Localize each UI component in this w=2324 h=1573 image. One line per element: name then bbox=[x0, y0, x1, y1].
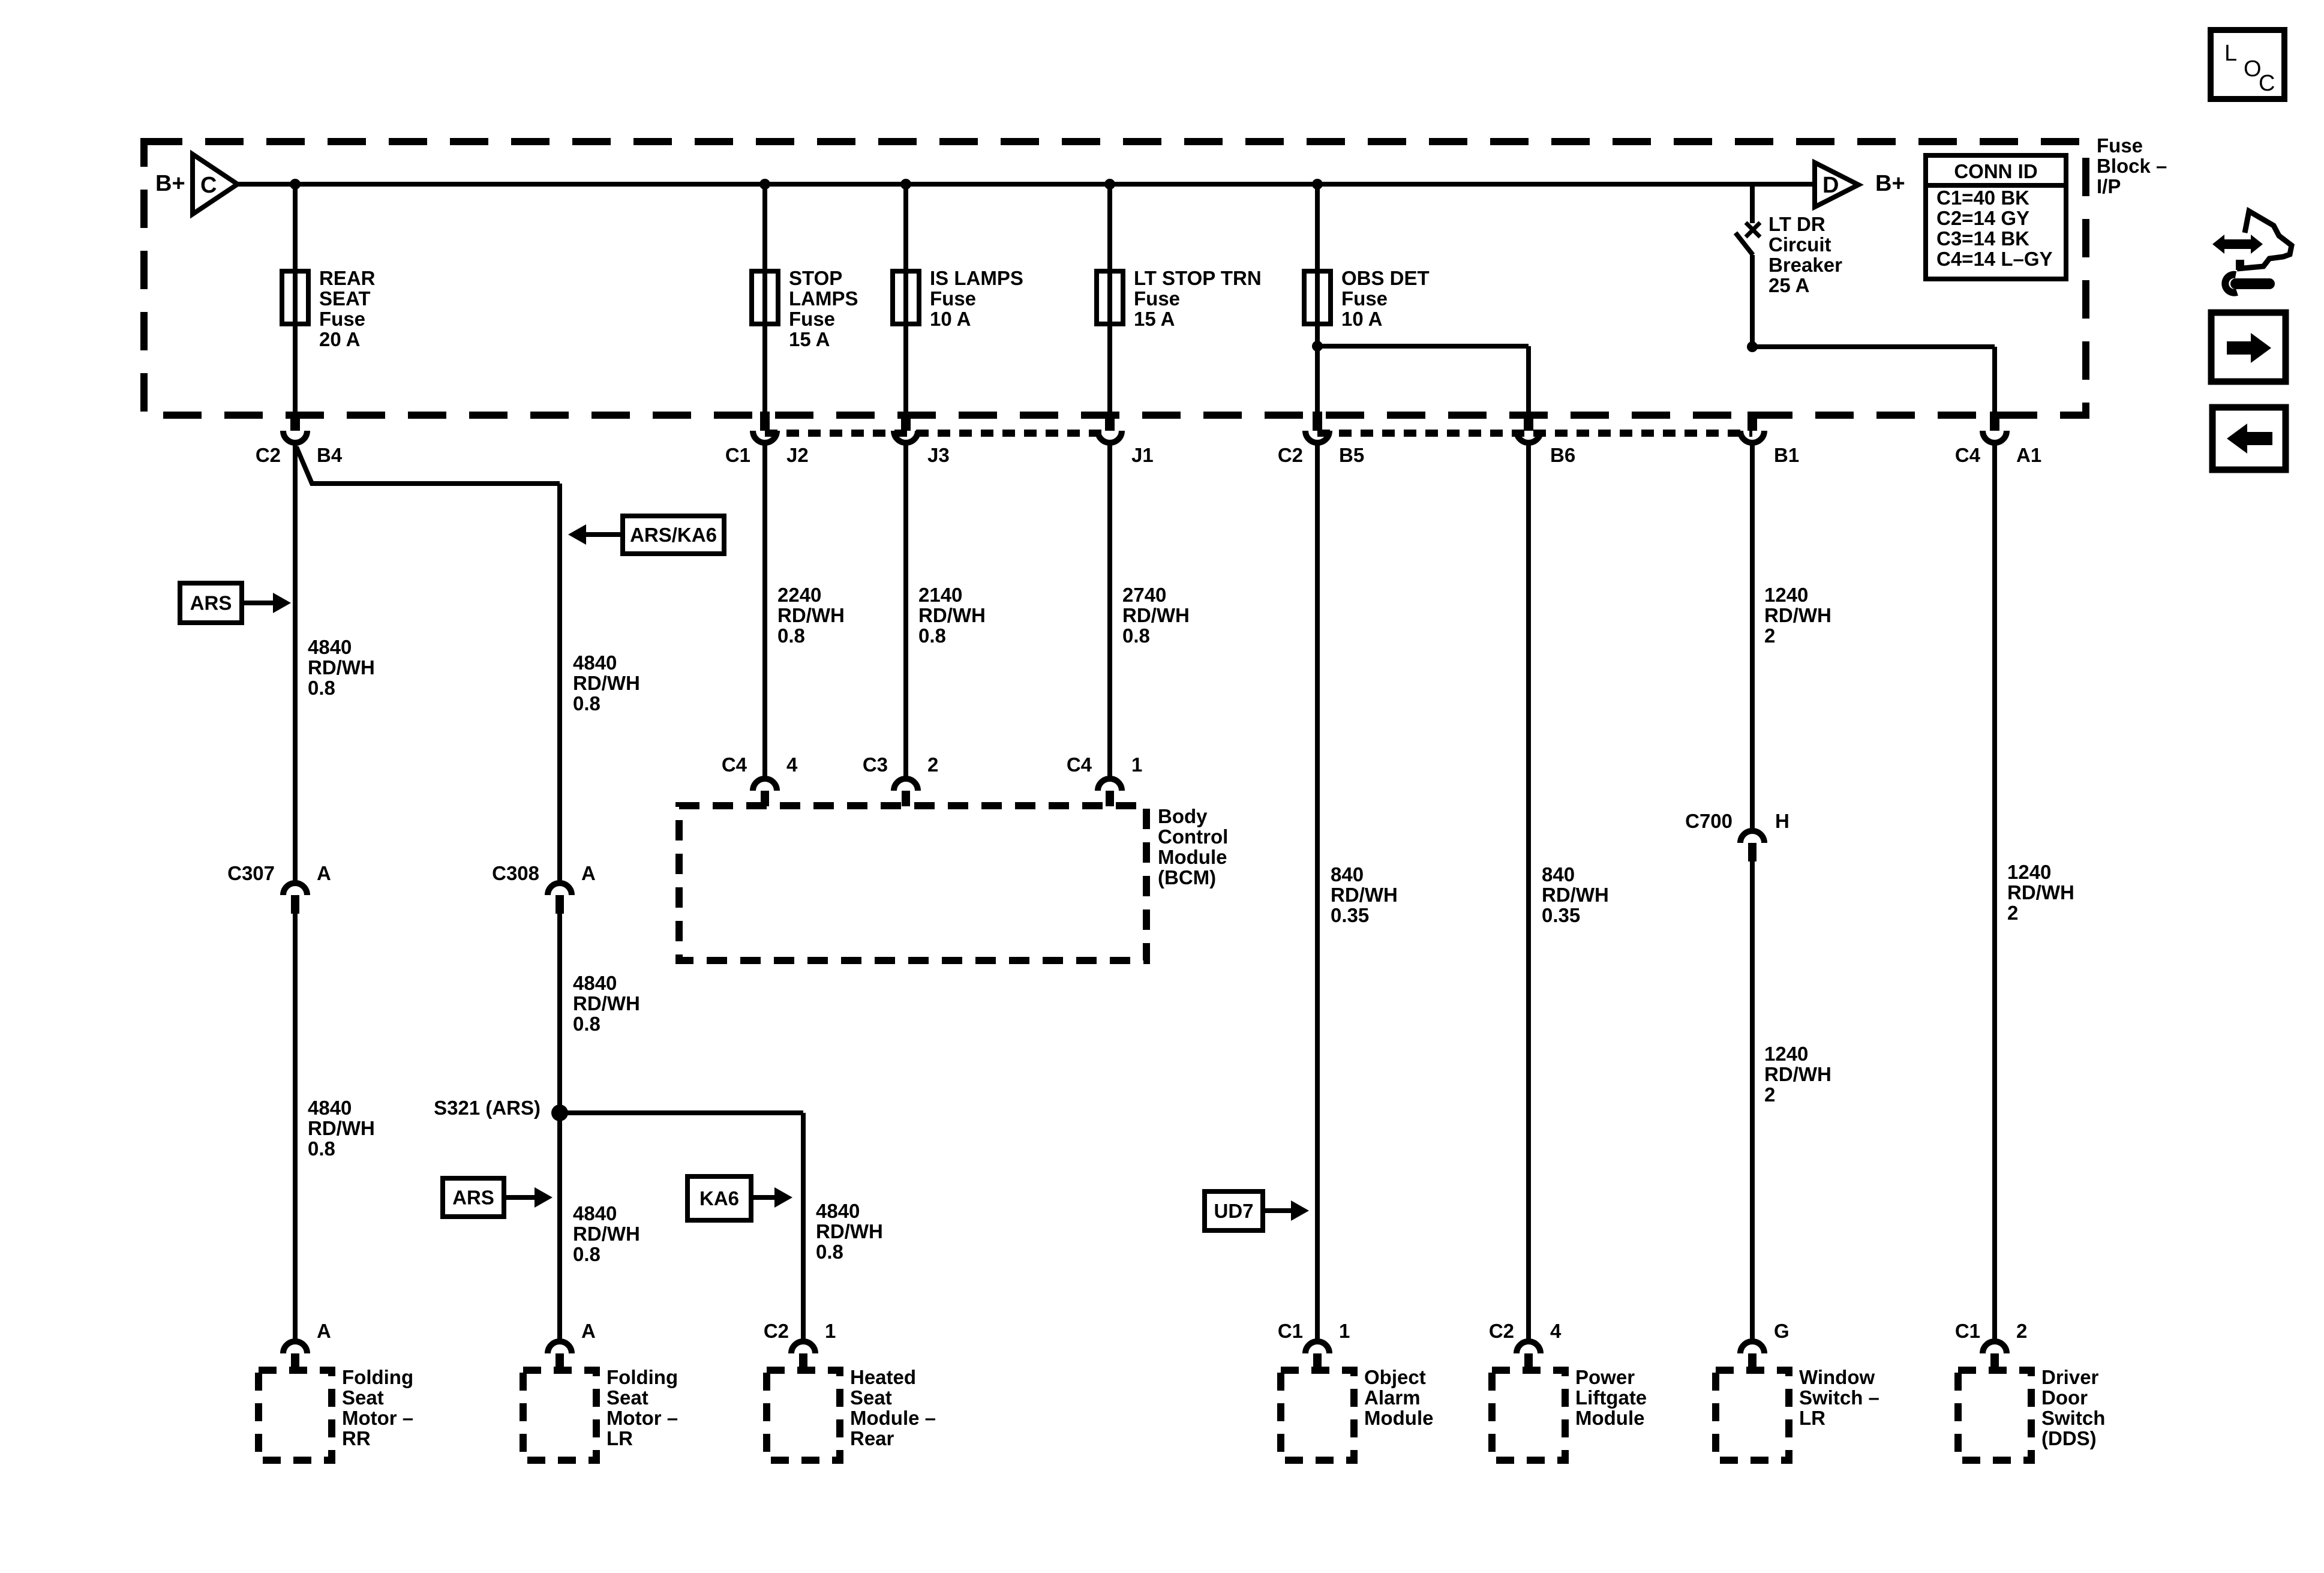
svg-text:C2: C2 bbox=[1489, 1320, 1514, 1342]
svg-text:H: H bbox=[1775, 810, 1789, 832]
svg-text:Fuse: Fuse bbox=[1134, 287, 1180, 310]
svg-text:1240: 1240 bbox=[1764, 1043, 1808, 1065]
svg-text:4840: 4840 bbox=[816, 1200, 860, 1222]
svg-text:Driver: Driver bbox=[2041, 1366, 2099, 1388]
svg-text:C2=14 GY: C2=14 GY bbox=[1936, 207, 2029, 229]
svg-text:ARS: ARS bbox=[452, 1187, 494, 1209]
svg-text:Seat: Seat bbox=[606, 1386, 648, 1409]
svg-text:10 A: 10 A bbox=[930, 308, 971, 330]
svg-text:OBS DET: OBS DET bbox=[1341, 267, 1430, 289]
svg-text:Seat: Seat bbox=[342, 1386, 384, 1409]
svg-text:A: A bbox=[317, 862, 331, 884]
svg-text:15 A: 15 A bbox=[789, 328, 830, 350]
svg-text:C: C bbox=[200, 173, 217, 198]
svg-text:Power: Power bbox=[1575, 1366, 1635, 1388]
svg-text:RD/WH: RD/WH bbox=[1764, 1063, 1831, 1085]
svg-text:RD/WH: RD/WH bbox=[573, 992, 640, 1014]
svg-text:Switch: Switch bbox=[2041, 1407, 2105, 1429]
svg-text:CONN ID: CONN ID bbox=[1954, 160, 2037, 182]
svg-text:Fuse: Fuse bbox=[930, 287, 976, 310]
svg-text:C4: C4 bbox=[722, 754, 747, 776]
svg-text:Breaker: Breaker bbox=[1768, 254, 1842, 276]
svg-text:0.8: 0.8 bbox=[1122, 625, 1150, 647]
svg-text:C2: C2 bbox=[1278, 444, 1303, 466]
svg-text:0.8: 0.8 bbox=[573, 692, 600, 715]
svg-text:Folding: Folding bbox=[606, 1366, 678, 1388]
svg-text:C308: C308 bbox=[492, 862, 539, 884]
svg-text:C1=40 BK: C1=40 BK bbox=[1936, 187, 2029, 209]
svg-text:Object: Object bbox=[1364, 1366, 1426, 1388]
svg-text:I/P: I/P bbox=[2097, 175, 2121, 197]
svg-text:A: A bbox=[581, 862, 596, 884]
svg-text:S321 (ARS): S321 (ARS) bbox=[434, 1097, 541, 1119]
svg-text:Folding: Folding bbox=[342, 1366, 413, 1388]
svg-text:C1: C1 bbox=[1955, 1320, 1980, 1342]
svg-text:B+: B+ bbox=[155, 171, 185, 196]
svg-text:ARS: ARS bbox=[190, 592, 232, 614]
svg-text:Switch –: Switch – bbox=[1799, 1386, 1879, 1409]
svg-text:LT DR: LT DR bbox=[1768, 213, 1825, 235]
svg-text:Fuse: Fuse bbox=[789, 308, 835, 330]
svg-text:C1: C1 bbox=[1278, 1320, 1303, 1342]
svg-text:RD/WH: RD/WH bbox=[2007, 881, 2074, 903]
svg-text:2: 2 bbox=[2007, 902, 2018, 924]
svg-text:0.8: 0.8 bbox=[573, 1013, 600, 1035]
svg-text:A1: A1 bbox=[2016, 444, 2041, 466]
svg-text:2: 2 bbox=[1764, 1083, 1775, 1106]
svg-text:A: A bbox=[581, 1320, 596, 1342]
svg-text:STOP: STOP bbox=[789, 267, 842, 289]
svg-text:J1: J1 bbox=[1131, 444, 1154, 466]
svg-text:B6: B6 bbox=[1550, 444, 1575, 466]
svg-text:Module: Module bbox=[1158, 846, 1227, 868]
svg-text:RD/WH: RD/WH bbox=[918, 604, 986, 626]
svg-text:Body: Body bbox=[1158, 805, 1208, 827]
svg-text:2: 2 bbox=[1764, 625, 1775, 647]
svg-text:B+: B+ bbox=[1875, 171, 1905, 196]
svg-text:0.8: 0.8 bbox=[573, 1243, 600, 1265]
svg-text:Alarm: Alarm bbox=[1364, 1386, 1421, 1409]
svg-text:Control: Control bbox=[1158, 825, 1228, 848]
svg-text:840: 840 bbox=[1331, 863, 1364, 885]
svg-text:0.8: 0.8 bbox=[816, 1241, 843, 1263]
svg-text:RD/WH: RD/WH bbox=[573, 1223, 640, 1245]
svg-text:G: G bbox=[1774, 1320, 1789, 1342]
svg-text:Module: Module bbox=[1575, 1407, 1644, 1429]
svg-text:Fuse: Fuse bbox=[2097, 134, 2143, 157]
svg-text:2240: 2240 bbox=[777, 584, 821, 606]
svg-text:RD/WH: RD/WH bbox=[308, 1117, 375, 1139]
svg-text:LR: LR bbox=[1799, 1407, 1825, 1429]
svg-text:0.8: 0.8 bbox=[918, 625, 946, 647]
svg-text:Rear: Rear bbox=[850, 1427, 894, 1449]
svg-text:SEAT: SEAT bbox=[319, 287, 371, 310]
svg-text:L: L bbox=[2224, 41, 2237, 66]
svg-text:2: 2 bbox=[2016, 1320, 2027, 1342]
svg-text:1240: 1240 bbox=[1764, 584, 1808, 606]
svg-text:C307: C307 bbox=[227, 862, 275, 884]
svg-text:0.8: 0.8 bbox=[777, 625, 805, 647]
svg-text:J2: J2 bbox=[786, 444, 809, 466]
svg-text:1: 1 bbox=[1131, 754, 1142, 776]
svg-text:4: 4 bbox=[1550, 1320, 1562, 1342]
svg-text:UD7: UD7 bbox=[1214, 1200, 1253, 1222]
svg-text:2740: 2740 bbox=[1122, 584, 1166, 606]
svg-text:C700: C700 bbox=[1685, 810, 1733, 832]
svg-text:B5: B5 bbox=[1339, 444, 1364, 466]
svg-text:B4: B4 bbox=[317, 444, 343, 466]
svg-text:0.8: 0.8 bbox=[308, 677, 335, 699]
svg-text:0.35: 0.35 bbox=[1331, 904, 1369, 926]
svg-text:RR: RR bbox=[342, 1427, 371, 1449]
svg-text:Heated: Heated bbox=[850, 1366, 916, 1388]
svg-text:C: C bbox=[2259, 71, 2275, 96]
svg-text:REAR: REAR bbox=[319, 267, 376, 289]
svg-text:(BCM): (BCM) bbox=[1158, 866, 1216, 888]
svg-text:C4: C4 bbox=[1955, 444, 1981, 466]
svg-text:1240: 1240 bbox=[2007, 861, 2051, 883]
svg-text:2: 2 bbox=[927, 754, 938, 776]
svg-text:0.8: 0.8 bbox=[308, 1137, 335, 1160]
svg-text:RD/WH: RD/WH bbox=[816, 1220, 883, 1242]
svg-text:4840: 4840 bbox=[573, 1202, 617, 1224]
svg-text:RD/WH: RD/WH bbox=[777, 604, 845, 626]
svg-text:RD/WH: RD/WH bbox=[1542, 884, 1609, 906]
svg-text:C3=14 BK: C3=14 BK bbox=[1936, 227, 2029, 250]
svg-text:Motor –: Motor – bbox=[342, 1407, 413, 1429]
svg-text:C2: C2 bbox=[764, 1320, 789, 1342]
svg-text:20 A: 20 A bbox=[319, 328, 360, 350]
svg-text:RD/WH: RD/WH bbox=[308, 656, 375, 679]
svg-text:Liftgate: Liftgate bbox=[1575, 1386, 1647, 1409]
svg-text:LR: LR bbox=[606, 1427, 633, 1449]
svg-text:15 A: 15 A bbox=[1134, 308, 1175, 330]
svg-text:Seat: Seat bbox=[850, 1386, 892, 1409]
svg-text:4840: 4840 bbox=[308, 636, 352, 658]
svg-text:Block –: Block – bbox=[2097, 155, 2167, 177]
svg-text:4840: 4840 bbox=[573, 972, 617, 994]
svg-text:25 A: 25 A bbox=[1768, 274, 1809, 296]
svg-text:C4: C4 bbox=[1067, 754, 1092, 776]
svg-text:D: D bbox=[1822, 173, 1839, 198]
svg-text:RD/WH: RD/WH bbox=[1764, 604, 1831, 626]
svg-text:10 A: 10 A bbox=[1341, 308, 1382, 330]
svg-text:0.35: 0.35 bbox=[1542, 904, 1580, 926]
svg-text:A: A bbox=[317, 1320, 331, 1342]
svg-text:Circuit: Circuit bbox=[1768, 233, 1831, 256]
svg-text:C2: C2 bbox=[256, 444, 281, 466]
svg-text:LT STOP TRN: LT STOP TRN bbox=[1134, 267, 1262, 289]
svg-text:Motor –: Motor – bbox=[606, 1407, 678, 1429]
svg-text:RD/WH: RD/WH bbox=[1122, 604, 1190, 626]
svg-text:C3: C3 bbox=[863, 754, 888, 776]
svg-text:4840: 4840 bbox=[308, 1097, 352, 1119]
svg-text:1: 1 bbox=[825, 1320, 836, 1342]
svg-text:Door: Door bbox=[2041, 1386, 2088, 1409]
svg-text:ARS/KA6: ARS/KA6 bbox=[630, 524, 717, 546]
svg-text:KA6: KA6 bbox=[699, 1187, 739, 1209]
svg-text:2140: 2140 bbox=[918, 584, 962, 606]
svg-text:B1: B1 bbox=[1774, 444, 1799, 466]
svg-text:1: 1 bbox=[1339, 1320, 1350, 1342]
svg-text:Window: Window bbox=[1799, 1366, 1875, 1388]
svg-text:C4=14 L–GY: C4=14 L–GY bbox=[1936, 248, 2053, 270]
svg-text:Fuse: Fuse bbox=[1341, 287, 1388, 310]
svg-text:IS LAMPS: IS LAMPS bbox=[930, 267, 1023, 289]
svg-text:(DDS): (DDS) bbox=[2041, 1427, 2097, 1449]
svg-text:Module –: Module – bbox=[850, 1407, 936, 1429]
svg-text:LAMPS: LAMPS bbox=[789, 287, 858, 310]
svg-text:Fuse: Fuse bbox=[319, 308, 365, 330]
svg-text:RD/WH: RD/WH bbox=[1331, 884, 1398, 906]
svg-text:4: 4 bbox=[786, 754, 798, 776]
svg-text:J3: J3 bbox=[927, 444, 950, 466]
svg-text:840: 840 bbox=[1542, 863, 1575, 885]
svg-text:4840: 4840 bbox=[573, 652, 617, 674]
svg-text:Module: Module bbox=[1364, 1407, 1433, 1429]
svg-text:C1: C1 bbox=[725, 444, 750, 466]
svg-text:RD/WH: RD/WH bbox=[573, 672, 640, 694]
